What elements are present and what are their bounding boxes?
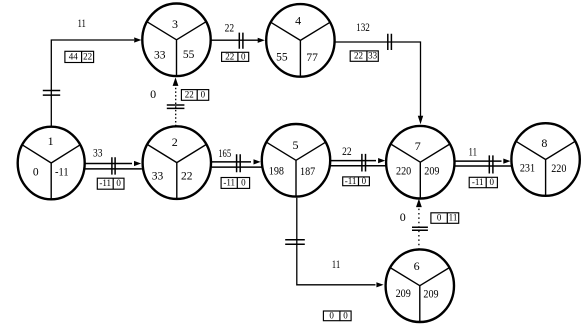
- svg-text:22: 22: [354, 51, 363, 61]
- arrow edge 4→7 (elbow right-down): [335, 42, 421, 117]
- float box -11|0 (edge 5→7): [343, 176, 370, 186]
- svg-text:11: 11: [332, 257, 341, 271]
- svg-text:11: 11: [77, 16, 86, 30]
- svg-text:165: 165: [218, 146, 231, 160]
- break ticks on edge 2→5: [237, 154, 241, 172]
- svg-text:22: 22: [342, 144, 352, 158]
- svg-text:55: 55: [276, 51, 288, 63]
- dotted arrow edge 2→3 (dummy activity): [175, 84, 177, 126]
- svg-text:0: 0: [150, 87, 156, 101]
- svg-text:0: 0: [241, 51, 246, 61]
- svg-text:22: 22: [225, 51, 234, 61]
- node 8 (event 8: early 231, late 220): [511, 123, 579, 196]
- svg-text:6: 6: [414, 259, 420, 273]
- break ticks on edge 5→6: [285, 240, 305, 245]
- svg-text:132: 132: [356, 20, 370, 34]
- svg-text:231: 231: [520, 163, 535, 175]
- dotted arrow edge 6→7 (dummy activity): [418, 207, 420, 250]
- break ticks on edge 5→7: [362, 154, 366, 172]
- svg-text:209: 209: [396, 288, 411, 300]
- svg-text:187: 187: [300, 166, 315, 178]
- svg-text:209: 209: [423, 289, 438, 301]
- break ticks on edge 1→3: [43, 91, 60, 96]
- break ticks on edge 1→2: [112, 157, 115, 174]
- float box 44|22 (edge 1→3): [65, 51, 94, 62]
- svg-text:33: 33: [154, 49, 166, 61]
- svg-text:0: 0: [343, 310, 348, 320]
- svg-text:7: 7: [415, 139, 421, 153]
- svg-text:-11: -11: [223, 177, 235, 187]
- arrow edge 3→4: [211, 39, 258, 41]
- svg-text:11: 11: [469, 144, 478, 158]
- svg-text:22: 22: [181, 171, 193, 183]
- svg-text:0: 0: [329, 310, 334, 320]
- svg-text:0: 0: [201, 89, 206, 99]
- svg-text:0: 0: [400, 210, 406, 224]
- svg-text:3: 3: [172, 17, 178, 31]
- arrow edge 1→3 (elbow up-right): [51, 40, 134, 126]
- svg-text:-11: -11: [345, 176, 357, 186]
- svg-text:4: 4: [295, 13, 301, 27]
- float box 0|11 (edge 6→7): [431, 213, 459, 224]
- svg-text:2: 2: [172, 135, 178, 149]
- svg-text:11: 11: [449, 213, 458, 223]
- svg-text:0: 0: [437, 213, 442, 223]
- svg-text:77: 77: [306, 52, 318, 64]
- node 4 (event 4: early 55, late 77): [266, 4, 334, 77]
- svg-text:55: 55: [183, 49, 195, 61]
- svg-text:0: 0: [362, 176, 367, 186]
- svg-text:-11: -11: [99, 178, 111, 188]
- break ticks on edge 4→7: [388, 34, 392, 50]
- svg-text:5: 5: [293, 138, 299, 152]
- arrow edge 5→6 (elbow down-right): [297, 198, 376, 285]
- double arrow edge 1→2 (critical path): [84, 164, 142, 169]
- float box 0|0 (edge 5→6): [323, 310, 351, 320]
- break ticks on edge 7→8: [489, 155, 493, 173]
- svg-text:33: 33: [93, 146, 103, 160]
- svg-text:209: 209: [424, 166, 439, 178]
- double arrow edge 2→5 (critical path): [212, 162, 262, 167]
- double arrow edge 7→8 (critical path): [454, 161, 511, 166]
- svg-text:0: 0: [490, 177, 495, 187]
- break ticks on edge 2→3: [167, 105, 185, 108]
- float box 22|0 (edge 3→4): [222, 51, 249, 61]
- node 7 (event 7: early 220, late 209): [386, 126, 454, 199]
- break ticks on edge 3→4: [239, 33, 243, 49]
- svg-text:0: 0: [241, 177, 246, 187]
- float box -11|0 (edge 2→5): [221, 177, 250, 188]
- svg-text:-11: -11: [55, 166, 69, 178]
- float box 22|0 (edge 2→3): [181, 89, 208, 100]
- svg-text:8: 8: [541, 136, 547, 150]
- float box -11|0 (edge 7→8): [469, 177, 497, 188]
- svg-text:44: 44: [69, 51, 79, 61]
- svg-text:-11: -11: [472, 177, 484, 187]
- svg-text:33: 33: [368, 51, 378, 61]
- svg-text:22: 22: [185, 89, 194, 99]
- double arrow edge 5→7 (critical path): [330, 161, 386, 166]
- svg-text:0: 0: [116, 178, 121, 188]
- node 1 (event 1: early 0, late -11): [18, 127, 85, 200]
- svg-text:22: 22: [83, 51, 92, 61]
- node 6 (event 6: early 209, late 209): [386, 249, 454, 322]
- node 2 (event 2: early 33, late 22): [143, 126, 211, 199]
- svg-text:1: 1: [48, 134, 54, 148]
- svg-text:33: 33: [152, 171, 164, 183]
- break ticks on edge 6→7: [412, 227, 428, 230]
- node 5 (event 5: early 198, late 187): [262, 124, 330, 197]
- svg-text:198: 198: [269, 165, 284, 177]
- svg-text:22: 22: [225, 21, 235, 35]
- node 3 (event 3: early 33, late 55): [142, 4, 210, 77]
- float box -11|0 (edge 1→2): [97, 178, 124, 189]
- svg-text:220: 220: [551, 163, 566, 175]
- svg-text:220: 220: [396, 166, 411, 178]
- float box 22|33 (edge 4→7): [350, 51, 378, 62]
- svg-text:0: 0: [33, 166, 39, 178]
